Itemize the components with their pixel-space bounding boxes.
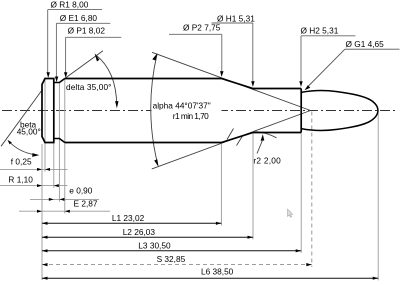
label G1 arrow bbox=[305, 85, 311, 90]
beta line bbox=[1, 90, 42, 146]
label G1 underline bbox=[345, 48, 400, 50]
svg-text:L6 38,50: L6 38,50 bbox=[201, 267, 234, 277]
S dimension line dashed bbox=[42, 264, 312, 266]
case body bottom edge / shoulder / neck bbox=[65, 133, 301, 143]
bullet ogive top bbox=[301, 91, 378, 111]
svg-text:f 0,25: f 0,25 bbox=[11, 156, 32, 166]
label H2 underline bbox=[301, 35, 355, 37]
L1 dimension line bbox=[42, 222, 221, 224]
case profile outline bbox=[42, 79, 54, 143]
L6 dimension line bbox=[42, 277, 378, 279]
L3 arrow left bbox=[42, 249, 48, 252]
delta line bbox=[65, 51, 103, 79]
extension line bevel end (x=45) bbox=[44, 80, 46, 172]
label G1 leader bbox=[308, 49, 345, 87]
svg-text:L1 23,02: L1 23,02 bbox=[112, 213, 145, 223]
L2 dimension line bbox=[42, 236, 253, 238]
L1 arrow left bbox=[42, 222, 48, 225]
f arrow right bbox=[45, 168, 50, 171]
L6 arrow right bbox=[373, 277, 379, 280]
svg-text:L2 26,03: L2 26,03 bbox=[123, 227, 156, 237]
lower shoulder tick 1 bbox=[227, 129, 234, 140]
svg-text:Ø P2 7,75: Ø P2 7,75 bbox=[183, 22, 221, 32]
extension line groove front (x=59.4) bbox=[58, 83, 60, 202]
label P1 leader bbox=[65, 37, 67, 73]
delta arc bbox=[95, 55, 116, 106]
alpha arc arrow top bbox=[152, 53, 157, 60]
svg-text:e 0,90: e 0,90 bbox=[69, 185, 92, 195]
label R1 arrow bbox=[47, 72, 50, 78]
L1 arrow right bbox=[216, 222, 222, 225]
alpha arc bbox=[151, 54, 158, 165]
e dimension line bbox=[30, 198, 99, 200]
svg-text:r2 2,00: r2 2,00 bbox=[253, 156, 281, 166]
f arrow left bbox=[37, 168, 42, 171]
e arrow left bbox=[49, 198, 54, 201]
S arrow left bbox=[42, 263, 48, 266]
label H1 arrow bbox=[251, 81, 254, 87]
centerline (axis) bbox=[2, 110, 397, 112]
beta arc arrow right bbox=[32, 153, 39, 157]
extension line mouth (x=301.2) bbox=[300, 133, 302, 253]
e arrow right bbox=[59, 198, 64, 201]
svg-text:E 2,87: E 2,87 bbox=[74, 199, 98, 209]
label P2 leader bbox=[221, 34, 223, 72]
label P1 underline bbox=[66, 36, 122, 38]
groove lower edge bbox=[54, 139, 65, 143]
label E1 arrow bbox=[55, 77, 58, 83]
svg-text:alpha 44°07'37": alpha 44°07'37" bbox=[153, 101, 211, 111]
extension line bullet tip (x=378.2) bbox=[377, 111, 379, 281]
label H2 arrow bbox=[299, 81, 302, 87]
label R1 leader bbox=[47, 10, 49, 74]
r2 leader bbox=[257, 141, 262, 154]
svg-text:Ø G1 4,65: Ø G1 4,65 bbox=[346, 39, 385, 49]
svg-text:R 1,10: R 1,10 bbox=[8, 174, 33, 184]
svg-text:delta 35,00°: delta 35,00° bbox=[66, 82, 112, 92]
beta arc arrow left bbox=[8, 140, 12, 144]
label E1 leader bbox=[55, 23, 57, 78]
L6 arrow left bbox=[42, 277, 48, 280]
R dimension line bbox=[0, 185, 68, 187]
extension line base (x=42) bbox=[41, 144, 43, 280]
R arrow right bbox=[54, 184, 59, 187]
extension line neck start (x=253) bbox=[252, 133, 254, 239]
label R1 underline bbox=[48, 9, 102, 11]
alpha text background bbox=[152, 100, 222, 112]
svg-text:S 32,85: S 32,85 bbox=[157, 254, 186, 264]
bullet ogive bottom bbox=[301, 111, 378, 131]
L2 arrow left bbox=[42, 236, 48, 239]
label E1 underline bbox=[56, 22, 110, 24]
label H1 leader bbox=[252, 23, 254, 82]
beta arc bbox=[8, 141, 36, 155]
r1 text background bbox=[172, 112, 210, 121]
lower shoulder tick 2 bbox=[237, 136, 243, 146]
delta arc arrow bottom bbox=[115, 101, 118, 108]
alpha arc arrow bottom bbox=[154, 159, 158, 167]
E arrow right bbox=[65, 210, 70, 213]
mouse cursor bbox=[288, 209, 293, 217]
L3 dimension line bbox=[42, 250, 301, 252]
S arrow right bbox=[306, 263, 312, 266]
extension line rim front lower (x=53.8) bbox=[53, 143, 55, 188]
cone line lower (alpha construction) bbox=[152, 111, 311, 169]
extension line ramp end (x=64.8) bbox=[64, 79, 66, 213]
L3 arrow right bbox=[296, 249, 302, 252]
f dimension line bbox=[0, 168, 68, 170]
label H2 leader bbox=[300, 36, 302, 82]
L2 arrow right bbox=[248, 236, 254, 239]
E arrow left bbox=[37, 210, 42, 213]
extension line S dashed (x=311.8) bbox=[311, 112, 313, 267]
svg-text:Ø H1 5,31: Ø H1 5,31 bbox=[217, 13, 255, 23]
r2 blend arc bbox=[256, 132, 277, 138]
svg-text:45,00°: 45,00° bbox=[17, 126, 41, 136]
delta arc arrow top bbox=[95, 53, 100, 61]
svg-text:r1 min 1,70: r1 min 1,70 bbox=[173, 111, 209, 121]
case body top edge / shoulder / neck bbox=[65, 79, 301, 89]
groove upper edge bbox=[54, 79, 65, 83]
svg-text:Ø H2 5,31: Ø H2 5,31 bbox=[301, 25, 339, 35]
r2 leader arrow bbox=[261, 134, 265, 141]
label P1 arrow bbox=[64, 72, 67, 78]
svg-text:L3 30,50: L3 30,50 bbox=[138, 241, 171, 251]
svg-text:Ø P1 8,02: Ø P1 8,02 bbox=[68, 26, 106, 36]
svg-text:Ø R1 8,00: Ø R1 8,00 bbox=[51, 0, 89, 10]
label H1 underline bbox=[212, 22, 253, 24]
case mouth face bbox=[300, 89, 302, 133]
svg-text:Ø E1 6,80: Ø E1 6,80 bbox=[60, 13, 98, 23]
extension line shoulder start (x=221.4) bbox=[220, 144, 222, 226]
R arrow left bbox=[37, 184, 42, 187]
label P2 underline bbox=[169, 33, 222, 35]
E dimension line bbox=[19, 210, 110, 212]
cone line upper (alpha construction) bbox=[152, 52, 311, 110]
label P2 arrow bbox=[220, 71, 224, 77]
